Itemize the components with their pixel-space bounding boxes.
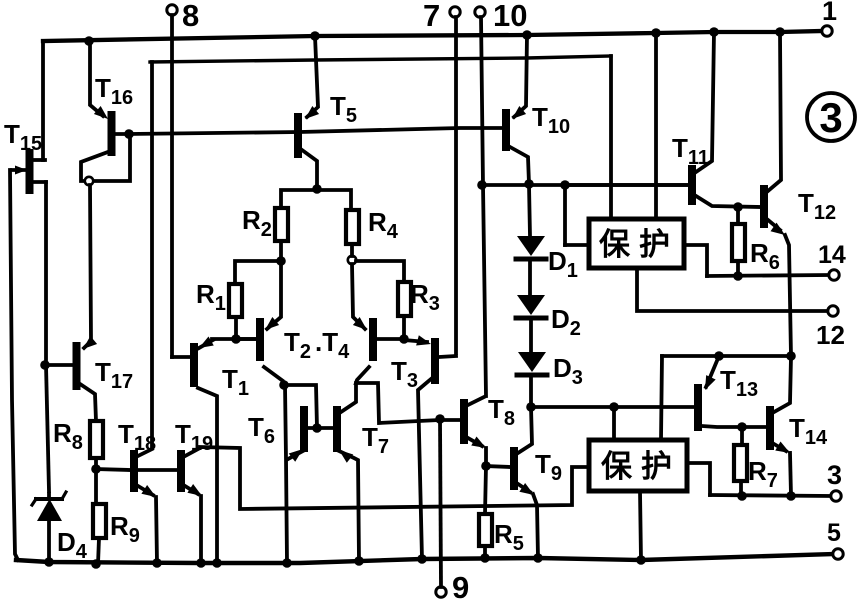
svg-text:9: 9 xyxy=(452,570,469,605)
svg-text:保护: 保护 xyxy=(599,227,679,262)
svg-text:14: 14 xyxy=(818,241,846,269)
svg-text:10: 10 xyxy=(493,0,527,33)
svg-text:3: 3 xyxy=(819,94,842,141)
svg-text:12: 12 xyxy=(816,320,845,350)
svg-text:1: 1 xyxy=(822,0,837,26)
svg-text:保护: 保护 xyxy=(601,449,681,484)
svg-text:8: 8 xyxy=(182,0,199,33)
svg-text:3: 3 xyxy=(827,460,842,490)
svg-text:5: 5 xyxy=(827,519,841,547)
svg-text:7: 7 xyxy=(423,0,440,33)
